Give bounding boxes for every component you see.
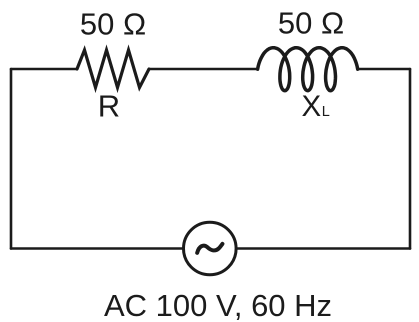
svg-text:50 Ω: 50 Ω	[80, 7, 146, 42]
wire left vertical	[10, 69, 13, 249]
svg-text:AC 100 V, 60 Hz: AC 100 V, 60 Hz	[104, 288, 332, 322]
wire bottom left segment	[11, 247, 184, 250]
wire bottom right segment	[237, 247, 411, 250]
svg-text:R: R	[98, 88, 120, 123]
wire right vertical	[409, 69, 412, 249]
svg-text:50 Ω: 50 Ω	[278, 6, 344, 41]
AC source circle	[184, 222, 237, 275]
svg-text:XL: XL	[302, 90, 330, 123]
wire top right segment	[358, 68, 410, 71]
resistor R	[77, 50, 149, 88]
wire top left segment	[11, 68, 77, 71]
wire top middle segment	[149, 68, 258, 71]
AC source sine symbol	[197, 244, 222, 253]
inductor XL	[258, 48, 358, 91]
